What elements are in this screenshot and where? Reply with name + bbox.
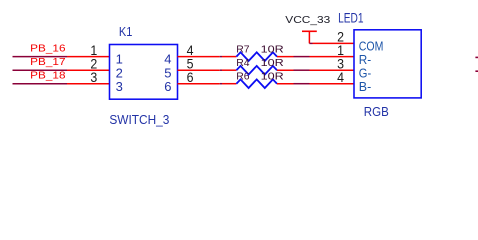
clipped wire stub right edge row2 xyxy=(475,70,478,72)
pin 2 of LED1 xyxy=(313,42,355,44)
svg-text:PB_18: PB_18 xyxy=(30,71,66,82)
wire joint row3 xyxy=(220,83,222,85)
pin 3 of LED1 xyxy=(310,69,355,71)
wire R4 to LED pin 3 xyxy=(294,69,310,71)
pin 2 of R4 xyxy=(277,69,294,71)
pin 2 of K1 xyxy=(67,69,110,71)
pin 3 of K1 xyxy=(67,83,110,85)
component LED1 body xyxy=(354,30,421,98)
svg-text:R4: R4 xyxy=(236,58,250,69)
svg-text:6: 6 xyxy=(164,79,171,94)
svg-text:LED1: LED1 xyxy=(338,11,364,26)
resistor R7 zigzag xyxy=(236,52,277,61)
svg-text:PB_17: PB_17 xyxy=(30,57,66,68)
svg-text:VCC_33: VCC_33 xyxy=(285,15,330,26)
pin 6 of K1 xyxy=(178,83,220,85)
clipped wire stub right edge row1 xyxy=(475,56,478,58)
svg-text:G-: G- xyxy=(359,66,371,80)
svg-text:R6: R6 xyxy=(236,72,250,83)
svg-text:K1: K1 xyxy=(119,25,132,39)
pin 2 of R7 xyxy=(277,56,294,58)
svg-text:R7: R7 xyxy=(236,45,250,56)
wire net PB_16 xyxy=(13,56,68,58)
svg-text:3: 3 xyxy=(90,70,97,85)
svg-text:10R: 10R xyxy=(261,45,284,56)
pin 4 of LED1 xyxy=(310,83,355,85)
pin 1 of R7 xyxy=(222,56,236,58)
svg-text:3: 3 xyxy=(116,79,123,94)
power stem VCC_33 xyxy=(308,31,310,43)
svg-text:RGB: RGB xyxy=(364,104,389,119)
wire net PB_17 xyxy=(13,69,68,71)
wire VCC to LED pin 2 xyxy=(309,42,312,44)
wire R6 to LED pin 4 xyxy=(294,83,310,85)
pin 4 of K1 xyxy=(178,56,220,58)
svg-text:COM: COM xyxy=(359,39,384,53)
pin 1 of R4 xyxy=(222,69,236,71)
pin 5 of K1 xyxy=(178,69,220,71)
svg-text:SWITCH_3: SWITCH_3 xyxy=(109,113,169,127)
wire joint row2 xyxy=(220,69,222,71)
svg-text:B-: B- xyxy=(359,80,371,94)
wire R7 to LED pin 1 xyxy=(294,56,310,58)
resistor R6 zigzag xyxy=(236,79,277,88)
svg-text:PB_16: PB_16 xyxy=(30,44,66,55)
svg-text:10R: 10R xyxy=(261,72,284,83)
svg-text:4: 4 xyxy=(337,70,344,85)
pin 1 of K1 xyxy=(67,56,110,58)
wire net PB_18 xyxy=(13,83,68,85)
pin 1 of LED1 xyxy=(310,56,355,58)
svg-text:10R: 10R xyxy=(261,58,284,69)
svg-text:6: 6 xyxy=(187,70,194,85)
pin 1 of R6 xyxy=(222,83,236,85)
component K1 body xyxy=(110,45,178,100)
svg-text:R-: R- xyxy=(359,53,371,67)
pin 2 of R6 xyxy=(277,83,294,85)
resistor R4 zigzag xyxy=(236,66,277,75)
wire joint row1 xyxy=(220,56,222,58)
power bar VCC_33 xyxy=(302,30,317,32)
